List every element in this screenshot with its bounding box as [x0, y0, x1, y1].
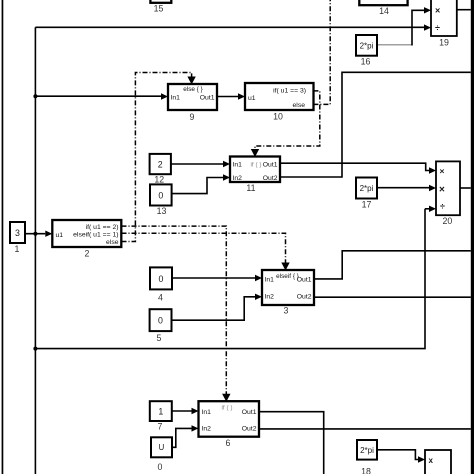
svg-text:11: 11 — [246, 183, 255, 193]
svg-text:×: × — [439, 185, 445, 196]
svg-text:×: × — [435, 6, 440, 16]
frame left border — [2, 0, 4, 474]
wire: trunk branch to In1 of block 9 (y=96.2) — [35, 95, 161, 97]
svg-text:u1: u1 — [56, 232, 64, 239]
svg-text:4: 4 — [158, 293, 163, 303]
block 3 elseif action subsystem — [262, 270, 314, 316]
frame right border — [471, 0, 474, 474]
svg-text:In2: In2 — [202, 426, 212, 433]
block 6 if action subsystem — [199, 401, 260, 448]
wire: Constant 1 output to u1 of block 2 — [25, 233, 45, 235]
wire: trunk net from Constant 1 (vertical x=35.4, y 27.3..474) — [34, 27, 36, 474]
svg-text:2*pi: 2*pi — [360, 446, 374, 455]
junction dot trunk/block9 branch — [33, 94, 37, 98]
wire: block 19 output to right edge — [457, 9, 471, 11]
svg-text:1: 1 — [15, 244, 20, 254]
svg-text:7: 7 — [158, 421, 163, 431]
block 21 product (clipped at bottom) — [425, 450, 451, 474]
svg-text:3: 3 — [284, 306, 289, 316]
svg-text:9: 9 — [190, 112, 195, 122]
junction dot trunk/long bottom branch — [33, 347, 37, 351]
block 12 constant 2 — [150, 154, 171, 184]
control wire: block 10 else up to top edge (dash-dot) — [313, 0, 330, 104]
svg-text:÷: ÷ — [435, 23, 440, 33]
svg-text:12: 12 — [154, 174, 164, 184]
svg-text:if ( ): if ( ) — [250, 162, 261, 169]
svg-text:0: 0 — [158, 316, 163, 326]
wire: Constant 8 to In2 of block 6 — [172, 428, 192, 447]
block 15 (clipped at top) — [150, 0, 171, 14]
svg-text:elseif( u1 == 1): elseif( u1 == 1) — [73, 232, 118, 239]
svg-text:Out2: Out2 — [263, 175, 278, 182]
svg-text:2: 2 — [85, 248, 90, 258]
wire: block 6 Out2 to right edge (y=428.9) — [259, 428, 471, 430]
svg-text:18: 18 — [361, 467, 371, 474]
svg-text:10: 10 — [273, 112, 283, 122]
wire: block 3 Out2 to right edge (y=297.2) — [314, 296, 471, 298]
block 7 constant 1 — [150, 401, 172, 431]
svg-text:Out1: Out1 — [297, 276, 312, 283]
control wire: block 10 if to block 11 (dash-dot) — [255, 91, 320, 150]
wire: Constant 12 to In1 of block 11 — [171, 163, 223, 165]
svg-text:if( u1 == 3): if( u1 == 3) — [273, 88, 306, 95]
wire: Constant 16 (2*pi) to multiply port of block 19 — [377, 44, 412, 46]
block 16 constant 2*pi — [356, 35, 377, 67]
svg-text:÷: ÷ — [440, 202, 445, 212]
control wire: block 2 elseif to block 3 (dash-dot) — [122, 233, 286, 263]
svg-text:In2: In2 — [265, 294, 275, 301]
svg-text:Out2: Out2 — [242, 426, 257, 433]
svg-text:u1: u1 — [248, 95, 256, 102]
svg-text:3: 3 — [15, 228, 20, 238]
svg-text:Out1: Out1 — [200, 95, 215, 102]
svg-text:if ( ): if ( ) — [221, 405, 232, 412]
wire: Constant 18 (2*pi) to product block 21 — [377, 450, 418, 460]
block 18 constant 2*pi — [357, 440, 377, 474]
junction dot trunk/Constant1 — [33, 232, 37, 236]
block 5 constant 0 — [150, 309, 172, 343]
svg-text:19: 19 — [439, 38, 449, 48]
block 4 constant 0 — [150, 267, 172, 302]
svg-text:0: 0 — [158, 462, 163, 472]
block 13 constant 0 — [150, 184, 172, 216]
svg-text:15: 15 — [154, 4, 164, 14]
svg-text:if( u1 == 2): if( u1 == 2) — [86, 224, 119, 231]
svg-text:In1: In1 — [171, 95, 181, 102]
wire: block 11 Out2 up and right to edge (y=72.3) — [280, 72, 471, 177]
svg-text:13: 13 — [157, 206, 167, 216]
svg-text:16: 16 — [361, 57, 371, 67]
wire: block 20 output to right edge — [460, 187, 471, 189]
svg-text:20: 20 — [443, 216, 453, 226]
wire: block 9 Out1 to block 10 u1 — [217, 96, 238, 98]
svg-text:Out2: Out2 — [297, 294, 312, 301]
block 1 constant 3 — [10, 222, 25, 254]
svg-text:else: else — [293, 102, 306, 109]
control wire: block 2 if to block 6 (dash-dot) — [122, 226, 227, 394]
control wire: block 2 else to block 9 (dash-dot) — [122, 73, 192, 242]
wire: block 11 Out1 to multiply port1 of block 20 — [280, 163, 429, 170]
wire: Constant 17 (2*pi) to multiply port2 of block 20 — [377, 187, 429, 189]
svg-text:else { }: else { } — [183, 86, 203, 93]
svg-text:In1: In1 — [265, 276, 275, 283]
wire: block 3 Out1 up to right edge (y=250.8) — [314, 251, 471, 279]
block 9 else action subsystem — [168, 84, 217, 122]
block 17 constant 2*pi — [356, 178, 377, 210]
wire: Constant 5 to In2 of block 3 — [172, 297, 256, 320]
block 19 divide (clipped at top) — [431, 0, 457, 48]
svg-text:2*pi: 2*pi — [360, 42, 374, 51]
svg-text:else: else — [106, 239, 119, 246]
wire: Constant 13 to In2 of block 11 — [172, 178, 223, 194]
block 11 if action subsystem — [230, 157, 280, 194]
svg-text:5: 5 — [157, 333, 162, 343]
svg-text:In2: In2 — [233, 175, 243, 182]
svg-text:14: 14 — [379, 6, 389, 16]
wire: block 6 Out1 down to bottom edge — [259, 412, 324, 474]
wire: Constant 4 to In1 of block 3 — [172, 277, 255, 279]
svg-text:×: × — [440, 166, 445, 176]
svg-text:2: 2 — [158, 159, 163, 169]
svg-text:0: 0 — [159, 274, 164, 284]
svg-text:2*pi: 2*pi — [360, 184, 374, 193]
svg-text:In1: In1 — [233, 162, 243, 169]
svg-text:Out1: Out1 — [242, 409, 257, 416]
svg-text:In1: In1 — [202, 409, 212, 416]
svg-text:1: 1 — [158, 406, 163, 416]
block 20 product (x,x,divide) — [436, 161, 460, 226]
wire: trunk top branch to divide port of block 19 (y=27.3) — [35, 26, 424, 28]
svg-text:0: 0 — [158, 190, 163, 200]
svg-text:Out1: Out1 — [263, 162, 278, 169]
block 2 if block — [52, 220, 121, 258]
svg-text:6: 6 — [226, 438, 231, 448]
block 10 if block — [245, 83, 314, 122]
svg-text:x: x — [429, 456, 434, 465]
wire: trunk branch to divide port of block 20 (y=348.6 then up x=425) — [35, 209, 425, 349]
wire: Constant 7 to In1 of block 6 — [172, 410, 192, 412]
svg-text:U: U — [159, 443, 165, 452]
block 8 constant U — [151, 437, 172, 472]
svg-text:17: 17 — [362, 199, 372, 209]
block 14 (clipped at top) — [359, 0, 407, 16]
